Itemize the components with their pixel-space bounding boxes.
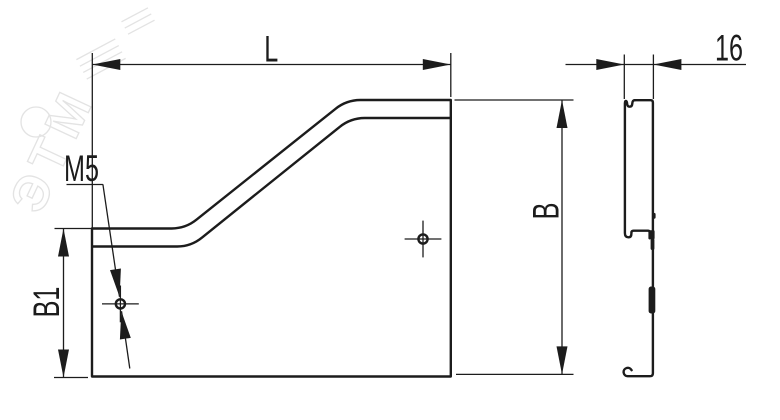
svg-text:B: B: [525, 203, 567, 220]
svg-text:M5: M5: [64, 147, 99, 189]
svg-text:B1: B1: [25, 287, 67, 318]
svg-text:16: 16: [715, 27, 743, 69]
svg-text:L: L: [264, 28, 278, 70]
